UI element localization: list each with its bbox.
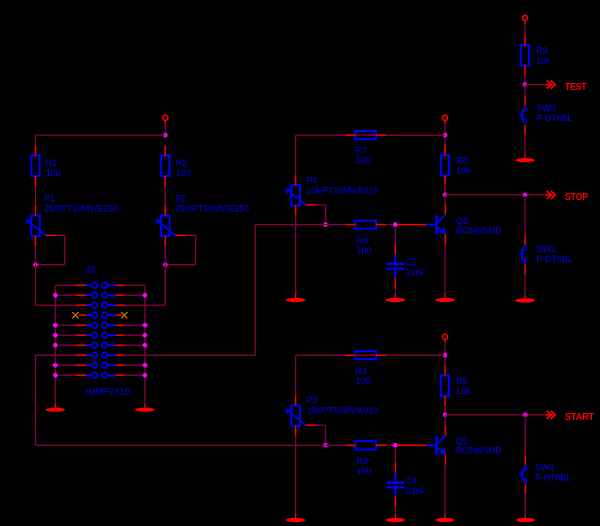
label P3	[307, 395, 318, 405]
wire P3 to ground	[295, 436, 297, 515]
svg-text:P-DT6BL: P-DT6BL	[535, 473, 571, 483]
node P4 wiper junction	[323, 222, 328, 227]
wire P1 wiper loop	[36, 235, 65, 264]
switch SW3	[519, 96, 527, 135]
wire rail stub row 6 right	[125, 334, 145, 336]
net label TEST	[565, 81, 587, 93]
svg-text:C4: C4	[406, 476, 418, 486]
label C5 value 33nF	[406, 268, 427, 278]
resistor R1	[31, 145, 39, 186]
svg-text:100: 100	[357, 245, 372, 255]
svg-text:250/PT10MV/E250: 250/PT10MV/E250	[44, 203, 118, 213]
wire SW3 top	[524, 85, 526, 96]
no-connect X row4 left	[72, 312, 78, 318]
net arrow STOP	[545, 191, 555, 199]
ground SW2	[515, 295, 535, 303]
terminal VCC bottom	[442, 334, 447, 339]
net label START	[565, 411, 594, 423]
label P1 value	[44, 203, 118, 213]
label P2	[175, 194, 186, 204]
label P1	[44, 194, 55, 204]
pin wire row 1 right	[116, 284, 125, 286]
pin wire row 6 left	[76, 334, 86, 336]
wire SW2 top	[524, 195, 526, 235]
wire P1 down to J2 row3	[36, 246, 77, 305]
wire R8 bottom to node	[444, 186, 446, 195]
svg-text:TEST: TEST	[565, 81, 587, 93]
capacitor C5	[387, 227, 405, 296]
node C5 junction	[393, 222, 398, 227]
svg-text:Q2: Q2	[456, 216, 468, 226]
potentiometer P4	[286, 175, 315, 216]
label C4 value 33nF	[406, 486, 427, 496]
connector J2 pin pair row 1	[86, 282, 116, 288]
label P2 value	[175, 203, 249, 213]
wire rail stub row 9 right	[125, 364, 145, 366]
pin wire row 2 left	[76, 294, 86, 296]
no-connect X row4 right	[121, 312, 127, 318]
wire R2-P2	[164, 186, 166, 206]
wire P3 wiper loop	[316, 425, 326, 445]
label R6 value 100	[357, 245, 372, 255]
node supply-left junction	[163, 133, 168, 138]
svg-text:BC846SMD: BC846SMD	[456, 446, 502, 456]
svg-text:R1: R1	[46, 158, 58, 168]
node left rail row 9	[53, 363, 58, 368]
node C4 junction	[393, 443, 398, 448]
wire P2 down to J2 row3	[123, 246, 165, 305]
label P3 value	[307, 405, 379, 415]
wire C4 node to Q1 base	[398, 444, 417, 446]
label R2 value 100	[176, 168, 191, 178]
connector J2 pin pair row 4	[86, 312, 116, 318]
label C4	[406, 476, 418, 486]
svg-text:C5: C5	[406, 258, 418, 268]
ground SW3	[515, 154, 535, 162]
label SW1 value P-DT6BL	[535, 473, 571, 483]
wire P2 wiper loop	[165, 235, 195, 264]
svg-text:10k: 10k	[456, 386, 471, 396]
resistor R6	[345, 221, 386, 229]
node left rail row 7	[53, 343, 58, 348]
wire SW2 bottom	[524, 274, 526, 295]
svg-text:JUMP2X10: JUMP2X10	[85, 387, 130, 397]
connector J2 pin pair row 8	[86, 352, 116, 358]
wire supply stub mid	[444, 120, 446, 135]
wire R5 bottom to node	[444, 406, 446, 415]
pin wire row 5 left	[76, 324, 86, 326]
resistor R4	[345, 351, 386, 359]
connector J2 pin pair row 10	[86, 372, 116, 378]
wire P4 wiper loop	[316, 205, 326, 225]
pin wire row 5 right	[116, 324, 125, 326]
connector J2 name	[86, 264, 96, 274]
wire TEST net	[525, 84, 545, 86]
pin wire row4 right	[116, 314, 121, 316]
svg-text:P4: P4	[307, 176, 318, 186]
wire test stub	[524, 21, 526, 36]
node bottom supply junction	[443, 353, 448, 358]
node right rail row 10	[143, 373, 148, 378]
wire C5 node to Q2 base	[398, 224, 417, 226]
pin wire row4 left	[79, 314, 86, 316]
resistor R8	[441, 145, 449, 186]
resistor R9	[521, 35, 529, 76]
ground C5	[386, 294, 406, 302]
label R1	[46, 158, 58, 168]
wire rail stub row 1 left	[55, 284, 76, 286]
node P3 wiper junction	[323, 443, 328, 448]
wire R8 top	[444, 137, 446, 145]
wire Q2 emitter to ground	[444, 244, 446, 296]
potentiometer P3	[286, 395, 315, 436]
ground Q1	[435, 514, 455, 522]
svg-text:100: 100	[355, 376, 370, 386]
wire Q1 emitter to ground	[444, 465, 446, 515]
svg-text:P-DT6BL: P-DT6BL	[536, 113, 572, 123]
connector J2 value JUMP2X10	[85, 387, 130, 397]
wire rail stub row 6 left	[55, 334, 76, 336]
label R2	[176, 158, 188, 168]
wire rail stub row 10 left	[55, 374, 76, 376]
label R1 value 100	[46, 168, 61, 178]
connector J2 pin pair row 5	[86, 322, 116, 328]
svg-text:R3: R3	[357, 456, 369, 466]
wire R3 to C4 node	[386, 444, 395, 446]
svg-text:J2: J2	[86, 264, 96, 274]
label SW2	[537, 244, 557, 254]
label R5	[456, 376, 468, 386]
wire supply horizontal	[36, 135, 166, 145]
wire collector stub bot	[444, 415, 446, 425]
svg-text:SW3: SW3	[536, 103, 556, 113]
svg-text:10k: 10k	[456, 166, 471, 176]
net arrow TEST	[545, 81, 555, 89]
wire J2 left rail	[54, 285, 56, 404]
terminal VCC middle	[442, 115, 447, 120]
wire rail stub row 10 right	[125, 374, 145, 376]
wire SW1 top	[524, 415, 526, 455]
pin wire row 7 right	[116, 344, 125, 346]
svg-text:R5: R5	[456, 376, 468, 386]
connector J2 pin pair row 6	[86, 332, 116, 338]
svg-text:R2: R2	[176, 158, 188, 168]
connector J2 pin pair row 3	[86, 302, 116, 308]
pin wire row 8 left	[76, 354, 86, 356]
label R8 value 10k	[456, 166, 471, 176]
svg-text:R9: R9	[536, 46, 548, 56]
wire bot top horizontal	[296, 355, 445, 395]
label Q2 value BC846SMD	[456, 226, 502, 236]
label P4 value	[307, 185, 379, 195]
label Q1	[456, 436, 468, 446]
svg-text:P-DT6BL: P-DT6BL	[537, 254, 573, 264]
label SW1	[535, 462, 555, 472]
node SW2 / STOP	[523, 193, 528, 198]
label SW3	[536, 103, 556, 113]
resistor R7	[345, 131, 386, 139]
label R3	[357, 456, 369, 466]
svg-text:10k/PT10MV/K010: 10k/PT10MV/K010	[307, 405, 379, 415]
node right rail row 2	[143, 293, 148, 298]
switch SW1	[519, 455, 527, 494]
node right rail row 5	[143, 323, 148, 328]
node SW1 / START	[523, 413, 528, 418]
label R9 value 10k	[536, 56, 551, 66]
ground Q2	[435, 294, 455, 302]
svg-text:100: 100	[176, 168, 191, 178]
label SW3 value P-DT6BL	[536, 113, 572, 123]
potentiometer P1	[26, 206, 55, 247]
wire supply stub	[164, 120, 166, 135]
wire mid top horizontal	[296, 135, 445, 175]
node right rail row 6	[143, 333, 148, 338]
svg-text:10k/PT10MV/K010: 10k/PT10MV/K010	[307, 185, 379, 195]
terminal VCC test	[522, 15, 527, 20]
ground J2 left	[46, 404, 66, 412]
wire R7 to R8 net	[386, 134, 445, 136]
pin wire row 8 right	[116, 354, 125, 356]
transistor Q2	[416, 205, 445, 245]
label R9	[536, 46, 548, 56]
svg-text:R6: R6	[357, 235, 369, 245]
svg-text:P2: P2	[175, 194, 186, 204]
svg-text:10k: 10k	[536, 56, 551, 66]
node left rail row 2	[53, 293, 58, 298]
wire START net	[445, 414, 545, 416]
label P4	[307, 176, 318, 186]
svg-text:33nF: 33nF	[406, 268, 427, 278]
wire R5 top	[444, 358, 446, 366]
node P2 wiper junction	[163, 262, 168, 267]
pin wire row 3 left	[76, 304, 86, 306]
svg-text:R4: R4	[355, 366, 367, 376]
pin wire row 10 right	[116, 374, 125, 376]
wire rail stub row 2 left	[55, 294, 76, 296]
svg-text:250/PT10MV/E250: 250/PT10MV/E250	[175, 203, 249, 213]
svg-text:P3: P3	[307, 395, 318, 405]
label C5	[406, 258, 418, 268]
wire SW1 bottom	[524, 494, 526, 513]
label Q1 value BC846SMD	[456, 446, 502, 456]
pin wire row 7 left	[76, 344, 86, 346]
label R4	[355, 366, 367, 376]
label R7	[355, 146, 367, 156]
pin wire row 10 left	[76, 374, 86, 376]
node left rail row 10	[53, 373, 58, 378]
label R4 value 100	[355, 376, 370, 386]
svg-text:Q1: Q1	[456, 436, 468, 446]
wire rail stub row 9 left	[55, 364, 76, 366]
wire bot base line	[36, 444, 346, 446]
connector J2 pin pair row 7	[86, 342, 116, 348]
svg-text:100: 100	[357, 466, 372, 476]
ground J2 right	[135, 404, 155, 412]
wire rail stub row 1 right	[125, 284, 145, 286]
svg-text:START: START	[565, 411, 594, 423]
node Q1 collector / START	[443, 413, 448, 418]
wire STOP net	[445, 194, 545, 196]
wire J2 row8 left	[36, 355, 77, 445]
pin wire row 9 right	[116, 364, 125, 366]
resistor R3	[345, 441, 386, 449]
wire J2 right rail	[144, 285, 146, 404]
wire rail stub row 7 right	[125, 344, 145, 346]
connector J2 pin pair row 2	[86, 292, 116, 298]
node right rail row 9	[143, 363, 148, 368]
switch SW2	[519, 235, 527, 274]
svg-text:33nF: 33nF	[406, 486, 427, 496]
pin wire row 3 right	[116, 304, 125, 306]
wire P4 to ground	[295, 216, 297, 296]
label SW2 value P-DT6BL	[537, 254, 573, 264]
wire R6 to C5 node	[386, 224, 395, 226]
node Q2 collector / STOP	[443, 193, 448, 198]
wire rail stub row 7 left	[55, 344, 76, 346]
svg-text:100: 100	[46, 168, 61, 178]
wire rail stub row 2 right	[125, 294, 145, 296]
node right rail row 7	[143, 343, 148, 348]
net label STOP	[565, 191, 588, 203]
svg-text:SW1: SW1	[535, 462, 555, 472]
svg-text:100: 100	[355, 156, 370, 166]
potentiometer P2	[156, 206, 185, 247]
resistor R2	[161, 145, 169, 186]
wire R1-P1	[35, 186, 37, 206]
pin wire row 1 left	[76, 284, 86, 286]
pin wire row 9 left	[76, 364, 86, 366]
resistor R5	[441, 365, 449, 406]
label R5 value 10k	[456, 386, 471, 396]
svg-text:STOP: STOP	[565, 191, 588, 203]
svg-text:P1: P1	[44, 194, 55, 204]
wire rail stub row 5 left	[55, 324, 76, 326]
svg-text:R8: R8	[456, 156, 468, 166]
wire SW3 bottom	[524, 135, 526, 154]
connector J2 pin pair row 9	[86, 362, 116, 368]
label R3 value 100	[357, 466, 372, 476]
svg-text:SW2: SW2	[537, 244, 557, 254]
node TEST junction	[523, 82, 528, 87]
ground SW1	[516, 514, 536, 522]
pin wire row 2 right	[116, 294, 125, 296]
label R7 value 100	[355, 156, 370, 166]
label Q2	[456, 216, 468, 226]
wire supply stub bot	[444, 340, 446, 356]
label R8	[456, 156, 468, 166]
svg-text:R7: R7	[355, 146, 367, 156]
svg-text:BC846SMD: BC846SMD	[456, 226, 502, 236]
ground C4	[386, 514, 406, 522]
capacitor C4	[387, 447, 405, 516]
wire rail stub row 5 right	[125, 324, 145, 326]
node left rail row 5	[53, 323, 58, 328]
wire J2 row8 right	[123, 225, 255, 356]
node mid supply junction	[443, 133, 448, 138]
wire collector stub	[444, 195, 446, 205]
net arrow START	[545, 411, 555, 419]
wire R9 bottom	[524, 76, 526, 85]
transistor Q1	[416, 425, 445, 465]
node P1 wiper junction	[33, 262, 38, 267]
ground P4	[286, 294, 306, 302]
node left rail row 6	[53, 333, 58, 338]
pin wire row 6 right	[116, 334, 125, 336]
terminal VCC left	[163, 115, 168, 120]
label R6	[357, 235, 369, 245]
ground P3	[286, 514, 306, 522]
wire mid base line	[255, 224, 345, 226]
